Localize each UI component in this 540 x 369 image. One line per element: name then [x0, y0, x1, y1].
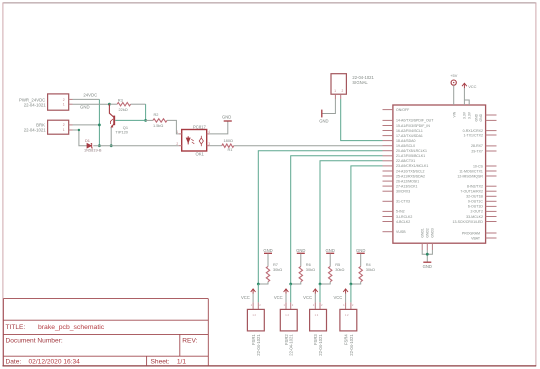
svg-text:1: 1 — [63, 128, 65, 132]
resistor R5 — [329, 266, 332, 281]
transistor Q1 base bar — [113, 116, 115, 126]
svg-text:GND2: GND2 — [426, 228, 430, 238]
resistor R4 — [359, 266, 362, 281]
U1 right pin VBAT — [486, 237, 497, 239]
svg-text:FSR4: FSR4 — [344, 334, 349, 345]
connector X1 pin 2 stub — [69, 98, 73, 100]
svg-text:GND1: GND1 — [420, 228, 424, 238]
svg-text:30kΩ: 30kΩ — [366, 267, 375, 272]
U1 right pin 0-RX1/CRX2 — [486, 130, 497, 132]
junction FSR1 node — [257, 283, 260, 286]
U1 right pin PROGRAM — [486, 232, 497, 234]
svg-text:TITLE:: TITLE: — [6, 324, 26, 331]
svg-text:02/12/2020 16:34: 02/12/2020 16:34 — [29, 358, 81, 365]
wire R4 to junction — [351, 282, 361, 284]
svg-text:VCC: VCC — [333, 295, 342, 300]
wire FSR1 node to pin — [257, 284, 259, 302]
supply VCC symbol (FSR3) — [314, 289, 316, 293]
U1 left pin 24-A10/TX6/SCL2 — [383, 170, 393, 172]
U1 left pin VUSB — [383, 231, 393, 233]
title block — [3, 299, 208, 366]
svg-text:21-A7/RX5/BCLK1: 21-A7/RX5/BCLK1 — [396, 154, 425, 158]
svg-text:26-A12/MOSI1: 26-A12/MOSI1 — [396, 179, 419, 183]
connector FSR3 pin stubs — [314, 302, 316, 309]
svg-text:GND: GND — [80, 104, 90, 109]
wire FSR4 node to pin — [350, 284, 352, 302]
svg-text:29-TX7: 29-TX7 — [471, 149, 483, 153]
junction FSR3 node — [319, 283, 322, 286]
svg-text:Sheet:: Sheet: — [151, 358, 170, 365]
U1 left pin ON/OFF — [383, 109, 393, 111]
svg-text:GND: GND — [222, 114, 231, 119]
wire Q1 base — [115, 119, 145, 121]
U1 left pin 16-A2/RX4/SCL1 — [383, 130, 393, 132]
wire VCC to FSR2 pin1 — [285, 294, 287, 303]
svg-text:30kΩ: 30kΩ — [306, 267, 315, 272]
connector X3 pin 2 stub — [340, 94, 342, 99]
U1 right pin 11-MOSI/CTX1 — [486, 170, 497, 172]
U1 left pin 15-A1/RX3/SPDIF_IN — [383, 125, 393, 127]
svg-text:22kΩ: 22kΩ — [119, 107, 128, 112]
U1 right pin 6-OUT1D — [486, 205, 497, 207]
resistor R3 — [109, 103, 117, 105]
svg-text:3-LRCLK2: 3-LRCLK2 — [396, 215, 412, 219]
U1 left pin 27-A13/SCK1 — [383, 185, 393, 187]
wire R6 to junction — [291, 282, 301, 284]
svg-text:TIP120: TIP120 — [115, 130, 128, 135]
svg-text:30kΩ: 30kΩ — [335, 267, 344, 272]
optocoupler pin 2 stub — [179, 145, 182, 147]
connector X1 PWR_24VDC box — [48, 94, 69, 110]
connector FSR3 box — [310, 309, 327, 331]
ground symbol GND (PC817) — [224, 120, 232, 122]
svg-text:R2: R2 — [154, 112, 159, 117]
U1 right pin 9-OUT1C — [486, 200, 497, 202]
svg-text:16-A2/RX4/SCL1: 16-A2/RX4/SCL1 — [396, 129, 423, 133]
svg-text:VCC: VCC — [274, 295, 283, 300]
svg-text:brake_pcb_schematic: brake_pcb_schematic — [38, 324, 105, 331]
wire Q1 emitter to rail — [110, 127, 112, 146]
svg-text:ON/OFF: ON/OFF — [396, 108, 409, 112]
wire GND to R4 — [360, 254, 362, 267]
wire FSR3 net to IC — [320, 161, 383, 284]
U1 left pin 22-A8/CTX1 — [383, 160, 393, 162]
svg-text:OK1: OK1 — [196, 151, 205, 156]
svg-text:22-04-1021: 22-04-1021 — [24, 128, 47, 133]
svg-text:22-04-1021: 22-04-1021 — [318, 334, 323, 356]
svg-text:22-04-1021: 22-04-1021 — [349, 334, 354, 356]
svg-text:1.5kΩ: 1.5kΩ — [153, 123, 163, 128]
U1 left pin 30/CRX3 — [383, 190, 393, 192]
svg-text:2: 2 — [63, 98, 65, 102]
svg-text:1 2: 1 2 — [252, 313, 256, 317]
svg-text:VUSB: VUSB — [396, 230, 406, 234]
svg-text:6-OUT1D: 6-OUT1D — [468, 205, 483, 209]
U1 right pin 1-TX1/CTX2 — [486, 134, 497, 136]
junction 24VDC / bottom rail — [98, 144, 101, 147]
svg-text:Date:: Date: — [6, 358, 22, 365]
supply +5V symbol — [451, 80, 456, 85]
U1 bottom pin GND3 — [431, 243, 433, 250]
svg-text:10-CS: 10-CS — [473, 164, 484, 168]
svg-text:12-MISO/MQSR: 12-MISO/MQSR — [457, 174, 483, 178]
junction emitter / rail — [110, 144, 113, 147]
connector X3 SIGNAL box — [331, 74, 346, 95]
svg-text:14-A0/TX3/SPDIF_OUT: 14-A0/TX3/SPDIF_OUT — [396, 119, 434, 123]
connector X2 BRK box — [48, 120, 69, 134]
svg-text:2: 2 — [342, 89, 344, 93]
wire GND to R7 — [267, 254, 269, 267]
svg-text:GND: GND — [263, 248, 272, 253]
svg-text:GND: GND — [356, 248, 365, 253]
connector FSR4 pin stubs — [345, 302, 347, 309]
svg-text:22-04-1021: 22-04-1021 — [24, 103, 47, 108]
svg-text:25-A11/RX6/SDA2: 25-A11/RX6/SDA2 — [396, 174, 425, 178]
wire GND to R5 — [329, 254, 331, 267]
svg-text:9-OUT1C: 9-OUT1C — [468, 200, 483, 204]
U1 right pin 7-OUT1A/RX2 — [486, 190, 497, 192]
U1 right pin 12-MISO/MQSR — [486, 175, 497, 177]
U1 right pin top aux — [486, 119, 497, 121]
svg-text:VCC: VCC — [468, 84, 476, 89]
connector X2 pin 1 stub — [69, 129, 73, 131]
junction FSR2 node — [289, 283, 292, 286]
U1 left pin 17-A3/TX4/SDA1 — [383, 135, 393, 137]
svg-text:+5V: +5V — [450, 73, 457, 78]
svg-text:0-RX1/CRX2: 0-RX1/CRX2 — [463, 129, 483, 133]
svg-text:1/1: 1/1 — [177, 358, 186, 365]
wire FSR3 node to pin — [319, 284, 321, 302]
wire X3 pin1 to GND — [322, 99, 335, 114]
svg-text:2: 2 — [63, 123, 65, 127]
op-amp/mcu U1 box — [393, 105, 486, 243]
optocoupler pin 4 stub — [207, 133, 210, 135]
U1 right pin 8-IN2/TX2 — [486, 185, 497, 187]
wire 24VDC vertical — [98, 99, 100, 145]
svg-text:22-04-1021: 22-04-1021 — [256, 334, 261, 356]
svg-text:8-IN2/TX2: 8-IN2/TX2 — [467, 185, 483, 189]
svg-text:13-SCK/CRX1/LED: 13-SCK/CRX1/LED — [453, 220, 484, 224]
svg-text:3.3V: 3.3V — [467, 111, 471, 119]
wire R3 to base node — [145, 104, 147, 120]
optocoupler pin 1 stub — [179, 133, 182, 135]
supply VCC symbol (FSR1) — [252, 289, 254, 293]
U1 right pin 29-TX7 — [486, 150, 497, 152]
svg-text:7-OUT1A/RX2: 7-OUT1A/RX2 — [460, 190, 483, 194]
svg-text:19-A5/SCL0: 19-A5/SCL0 — [396, 144, 415, 148]
svg-text:23-A9/CRX1/MCLK1: 23-A9/CRX1/MCLK1 — [396, 164, 428, 168]
svg-text:24-A10/TX6/SCL2: 24-A10/TX6/SCL2 — [396, 169, 424, 173]
svg-text:GND: GND — [296, 248, 305, 253]
svg-text:1: 1 — [334, 89, 336, 93]
U1 left pin 21-A7/RX5/BCLK1 — [383, 155, 393, 157]
connector X2 pin 2 stub — [69, 124, 73, 126]
svg-text:18-A4/SDA0: 18-A4/SDA0 — [396, 139, 416, 143]
U1 left pin 26-A12/MOSI1 — [383, 180, 393, 182]
diode D1 — [87, 143, 91, 148]
wire rail D1 to PC817 pin2 — [93, 145, 178, 147]
connector FSR1 pin stubs — [252, 302, 254, 309]
U1 right pin 10-CS — [486, 165, 497, 167]
U1 right pin 2-OUT2 — [486, 210, 497, 212]
svg-text:1N5819-B: 1N5819-B — [84, 148, 102, 153]
wire VCC to 3.3V pins — [463, 88, 465, 105]
svg-text:GND: GND — [319, 119, 328, 124]
svg-text:GND3: GND3 — [431, 228, 435, 238]
wire BRK pin2 to 24VDC net — [73, 124, 100, 126]
transistor Q1 emitter with arrow — [111, 124, 114, 128]
connector FSR2 box — [280, 309, 297, 331]
svg-text:20-A6/TX5/LRCLK1: 20-A6/TX5/LRCLK1 — [396, 149, 427, 153]
junction 24VDC / BRK pin2 — [98, 124, 101, 127]
optocoupler internal phototransistor — [199, 138, 203, 144]
svg-text:GND: GND — [326, 248, 335, 253]
svg-text:24VDC: 24VDC — [83, 93, 97, 98]
U1 left pin 14-A0/TX3/SPDIF_OUT — [383, 119, 393, 121]
resistor R6 — [299, 266, 302, 281]
wire BRK pin1 down to rail — [73, 130, 88, 146]
svg-text:1 2: 1 2 — [315, 313, 319, 317]
svg-text:180Ω: 180Ω — [224, 138, 233, 143]
U1 left pin 18-A4/SDA0 — [383, 140, 393, 142]
svg-text:VCC: VCC — [303, 295, 312, 300]
svg-text:31-CTX3: 31-CTX3 — [396, 200, 410, 204]
U1 left pin 19-A5/SCL0 — [383, 145, 393, 147]
U1 right pin top aux — [486, 114, 497, 116]
svg-text:33-MCLK2: 33-MCLK2 — [466, 215, 483, 219]
svg-text:2: 2 — [176, 142, 178, 146]
svg-text:1: 1 — [63, 103, 65, 107]
wire X3 pin2 signal net to IC pin 18-A4 — [341, 99, 383, 141]
U1 right pin 28-RX7 — [486, 145, 497, 147]
svg-text:30/CRX3: 30/CRX3 — [396, 190, 410, 194]
wire +5V to VIN — [453, 85, 455, 105]
resistor R7 — [266, 266, 269, 281]
svg-text:REV:: REV: — [182, 337, 197, 344]
svg-text:17-A3/TX4/SDA1: 17-A3/TX4/SDA1 — [396, 134, 423, 138]
svg-text:GND: GND — [479, 113, 483, 121]
junction BRK pin1 corner — [78, 129, 80, 131]
U1 left pin 4-BCLK2 — [383, 221, 393, 223]
svg-text:1 2: 1 2 — [345, 313, 349, 317]
junction node at R3 left / Q1 collector — [108, 103, 111, 106]
wire GND pins tie — [422, 250, 432, 254]
junction base node — [144, 119, 147, 122]
resistor R1 — [210, 145, 222, 147]
wire VCC to FSR3 pin1 — [314, 294, 316, 303]
svg-text:30kΩ: 30kΩ — [273, 267, 282, 272]
svg-text:GND: GND — [474, 113, 478, 121]
connector X1 pin 1 stub — [69, 103, 73, 105]
U1 left pin 31-CTX3 — [383, 200, 393, 202]
svg-text:VCC: VCC — [241, 295, 250, 300]
U1 left pin 23-A9/CRX1/MCLK1 — [383, 165, 393, 167]
svg-text:2-OUT2: 2-OUT2 — [470, 210, 483, 214]
U1 right pin 32-OUT1B — [486, 195, 497, 197]
ground symbol GND (U1 bottom) — [423, 261, 431, 263]
wire FSR2 net to IC — [291, 156, 383, 284]
junction FSR4 node — [350, 283, 353, 286]
svg-text:VIN: VIN — [453, 111, 457, 117]
svg-text:3.3V: 3.3V — [463, 111, 467, 119]
svg-text:22-A8/CTX1: 22-A8/CTX1 — [396, 159, 415, 163]
supply VCC symbol arrow — [463, 84, 465, 89]
wire FSR2 node to pin — [290, 284, 292, 302]
svg-text:GND: GND — [423, 264, 432, 269]
U1 left pin 25-A11/RX6/SDA2 — [383, 175, 393, 177]
wire GND from X1 pin1 — [73, 103, 110, 105]
svg-text:R1: R1 — [228, 147, 233, 152]
wire R7 to junction — [258, 282, 268, 284]
supply VCC symbol (FSR4) — [345, 289, 347, 293]
U1 right pin 13-SCK/CRX1/LED — [486, 221, 497, 223]
svg-text:32-OUT1B: 32-OUT1B — [466, 195, 483, 199]
svg-text:1-TX1/CTX2: 1-TX1/CTX2 — [463, 133, 483, 137]
connector FSR1 box — [247, 309, 264, 331]
U1 left pin 20-A6/TX5/LRCLK1 — [383, 150, 393, 152]
ground symbol GND (X3) rotated — [321, 110, 323, 118]
wire VCC to FSR1 pin1 — [252, 294, 254, 303]
wire 24VDC horizontal — [73, 98, 100, 100]
wire R2 to PC817 pin1 — [167, 120, 179, 133]
optocoupler internal LED — [186, 138, 190, 143]
wire GND to R6 — [300, 254, 302, 267]
svg-text:1 2: 1 2 — [285, 313, 289, 317]
svg-text:15-A1/RX3/SPDIF_IN: 15-A1/RX3/SPDIF_IN — [396, 124, 430, 128]
connector X3 pin 1 stub — [334, 94, 336, 99]
svg-text:5-IN2: 5-IN2 — [396, 210, 405, 214]
page frame — [3, 2, 537, 4]
wire R5 to junction — [320, 282, 330, 284]
svg-text:4-BCLK2: 4-BCLK2 — [396, 220, 410, 224]
U1 right pin 33-MCLK2 — [486, 216, 497, 218]
svg-text:PROGRAM: PROGRAM — [462, 231, 480, 235]
svg-text:Document Number:: Document Number: — [6, 337, 63, 344]
wire R1 to IC pin 19-A5 — [234, 145, 383, 147]
optocoupler pin 3 stub — [207, 145, 210, 147]
resistor R2 — [146, 119, 153, 121]
wire FSR1 net to IC — [258, 151, 382, 284]
svg-text:28-RX7: 28-RX7 — [471, 144, 483, 148]
svg-text:27-A13/SCK1: 27-A13/SCK1 — [396, 184, 417, 188]
U1 left pin 3-LRCLK2 — [383, 216, 393, 218]
svg-text:PC817: PC817 — [193, 124, 206, 129]
svg-text:VBAT: VBAT — [471, 236, 481, 240]
svg-text:SIGNAL: SIGNAL — [352, 80, 368, 85]
optocoupler OK1 PC817 box — [182, 130, 207, 152]
junction GND tie — [426, 253, 429, 256]
svg-text:22-04-1021: 22-04-1021 — [289, 334, 294, 356]
wire VCC to FSR4 pin1 — [345, 294, 347, 303]
U1 left pin 5-IN2 — [383, 210, 393, 212]
transistor Q1 collector wire — [109, 104, 113, 117]
svg-text:D1: D1 — [85, 138, 90, 143]
wire PC817 pin4 to GND — [210, 121, 228, 134]
U1 bottom pin GND1 (vertical label) — [421, 243, 423, 250]
supply VCC symbol (FSR2) — [285, 289, 287, 293]
connector FSR4 box — [340, 309, 357, 331]
transistor Q1 internal — [110, 119, 113, 124]
connector FSR2 pin stubs — [285, 302, 287, 309]
svg-text:11-MOSI/CTX1: 11-MOSI/CTX1 — [459, 169, 483, 173]
U1 bottom pin GND2 — [426, 243, 428, 250]
wire FSR4 net to IC — [351, 166, 383, 284]
